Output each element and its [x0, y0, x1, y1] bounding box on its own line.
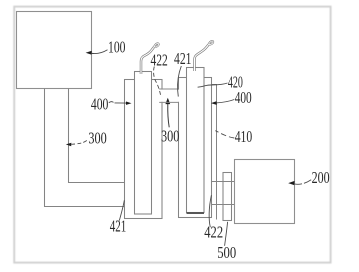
column outer vessel 420 right — [179, 78, 212, 218]
svg-text:300: 300 — [88, 129, 106, 148]
svg-text:300: 300 — [161, 127, 179, 146]
wire lead 422 right (ribbon going up with curl) — [195, 45, 209, 71]
label 200 leader arrow — [293, 180, 312, 185]
svg-text:200: 200 — [312, 168, 330, 187]
inner tube 421 left — [135, 72, 152, 215]
label 410 leader (dashed) — [215, 131, 234, 138]
wire 422 right curl tip — [208, 41, 213, 45]
wall gaps at bridge — [161, 90, 163, 102]
wire pipe 300 left vertical 1 — [45, 89, 125, 207]
label 300 left leader arrow — [78, 141, 87, 144]
label 500 leader — [225, 222, 228, 246]
column outer vessel 420 left — [125, 80, 163, 219]
svg-text:422: 422 — [204, 223, 223, 242]
wire 422 left curl tip — [154, 43, 159, 47]
svg-text:410: 410 — [235, 127, 253, 146]
label 420 leader — [198, 83, 228, 87]
label 400 left leader arrow — [109, 102, 114, 103]
connector pipe lower to box 200 — [212, 204, 235, 206]
svg-text:400: 400 — [91, 94, 109, 113]
svg-text:500: 500 — [217, 243, 236, 262]
bridge duct 300 between columns bottom line — [159, 101, 178, 103]
label 400 right leader arrow — [216, 100, 235, 103]
inner tube 421 right thick bottom — [187, 212, 205, 214]
box 100 (gas source) — [17, 12, 92, 89]
label 422 top leader (dashed) — [154, 67, 161, 95]
label 422 bottom leader — [209, 195, 211, 227]
label 421 top leader — [178, 66, 182, 97]
flow arrow of node 300 (up arrow) — [168, 104, 169, 127]
valve 500 (narrow rect) — [223, 173, 232, 221]
svg-text:100: 100 — [108, 38, 126, 57]
label 421 bottom leader — [119, 200, 124, 220]
bridge duct 300 between columns top line — [159, 88, 178, 90]
label 100 leader arrow — [90, 50, 108, 54]
svg-text:421: 421 — [174, 49, 192, 68]
wire pipe 300 left vertical 2 — [69, 89, 125, 183]
inner tube 421 right — [187, 68, 205, 213]
box 200 (collector) — [235, 160, 295, 224]
housing 410 extra wall — [212, 85, 217, 220]
svg-text:422: 422 — [151, 50, 168, 69]
svg-text:421: 421 — [110, 217, 127, 236]
connector pipe upper to box 200 — [212, 181, 235, 183]
svg-text:400: 400 — [235, 88, 252, 107]
wire lead 422 left (ribbon going up with curl) — [141, 47, 154, 74]
